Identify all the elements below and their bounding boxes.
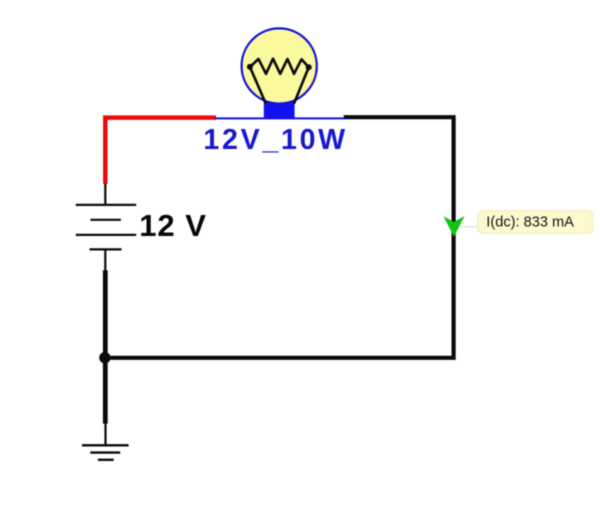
lamp filament terminal dot right — [306, 64, 312, 70]
lamp filament right leg — [294, 67, 309, 103]
svg-text:I(dc): 833 mA: I(dc): 833 mA — [486, 215, 574, 231]
ground bar 2 — [90, 451, 120, 453]
lamp filament terminal dot left — [247, 64, 253, 70]
probe tooltip box — [478, 211, 594, 234]
battery V1 top lead — [104, 184, 106, 205]
battery plate long — [76, 234, 136, 236]
svg-text:12V_10W: 12V_10W — [203, 124, 347, 156]
wire: blue net under lamp — [215, 117, 346, 119]
battery bottom lead — [104, 249, 106, 270]
wire: left lower vertical (battery negative to ground junction) — [103, 270, 108, 423]
lamp bulb circle — [242, 28, 317, 103]
wire: red segment from battery + up and across — [105, 118, 216, 184]
node junction dot — [99, 352, 110, 363]
probe connector line — [460, 226, 478, 228]
lamp filament zigzag — [250, 59, 309, 74]
ground lead — [104, 423, 106, 445]
wire: top-right + right + bottom black loop — [105, 117, 454, 358]
lamp filament left leg — [250, 67, 266, 104]
ground bar 3 — [98, 459, 114, 461]
battery plate short — [90, 219, 121, 221]
ground bar 1 — [82, 444, 129, 446]
current probe arrow — [444, 216, 465, 237]
battery plate short bottom — [90, 248, 122, 250]
lamp X1 base — [264, 102, 295, 118]
battery plate long top — [76, 204, 136, 206]
svg-text:12 V: 12 V — [139, 208, 207, 243]
